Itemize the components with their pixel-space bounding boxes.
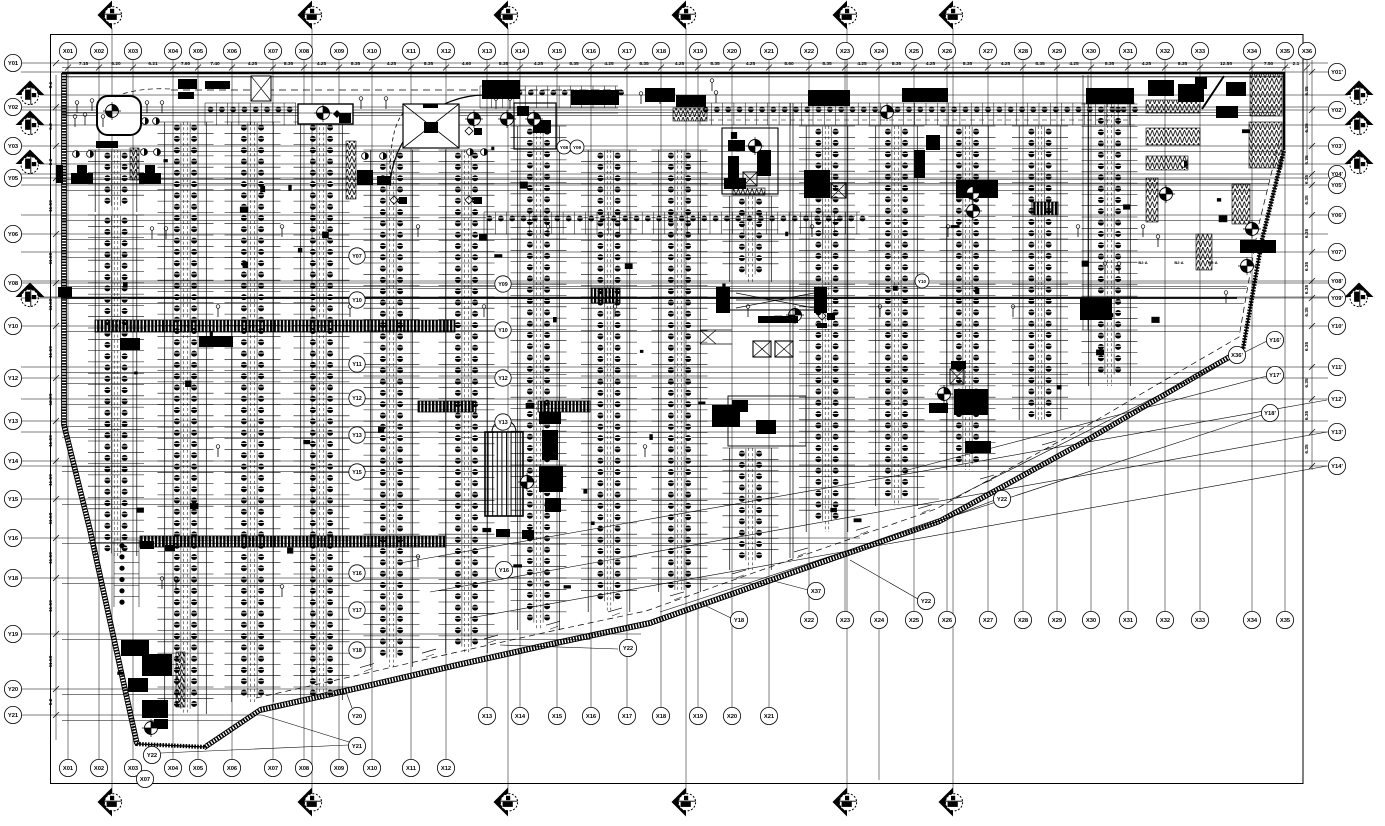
svg-text:4.25: 4.25 [1142, 61, 1152, 67]
svg-text:X12: X12 [441, 49, 451, 55]
svg-text:8.1: 8.1 [48, 81, 54, 88]
svg-text:4.25: 4.25 [857, 61, 867, 67]
svg-text:X10: X10 [367, 49, 377, 55]
svg-text:Y01: Y01 [8, 61, 19, 67]
svg-text:B2·A: B2·A [1138, 260, 1147, 265]
svg-text:X11: X11 [406, 766, 417, 772]
svg-text:Y22: Y22 [623, 646, 633, 652]
svg-text:Y13: Y13 [352, 433, 362, 439]
svg-text:X29: X29 [1052, 618, 1063, 624]
svg-text:11.50: 11.50 [48, 252, 54, 264]
svg-text:Y15: Y15 [8, 497, 19, 503]
svg-text:B2·A: B2·A [1174, 260, 1183, 265]
svg-text:8.35: 8.35 [499, 61, 509, 67]
svg-text:X15: X15 [552, 714, 563, 720]
svg-text:8.35: 8.35 [1035, 61, 1045, 67]
svg-text:Y22: Y22 [921, 599, 931, 605]
svg-text:Y16': Y16' [1269, 338, 1281, 344]
svg-text:Y16: Y16 [8, 536, 19, 542]
svg-text:X05: X05 [193, 49, 204, 55]
svg-text:X11: X11 [406, 49, 417, 55]
svg-text:X17: X17 [622, 49, 632, 55]
svg-text:Y18: Y18 [352, 648, 362, 654]
svg-text:X15: X15 [552, 49, 563, 55]
svg-text:X23: X23 [840, 618, 851, 624]
svg-text:X07: X07 [268, 49, 278, 55]
svg-text:X06: X06 [227, 49, 238, 55]
svg-text:X16: X16 [586, 714, 597, 720]
svg-text:Y20: Y20 [352, 714, 362, 720]
svg-text:X09: X09 [334, 766, 345, 772]
svg-text:6.35: 6.35 [1304, 262, 1310, 272]
svg-text:X22: X22 [804, 49, 814, 55]
svg-text:6.35: 6.35 [1304, 411, 1310, 421]
svg-text:X12: X12 [441, 766, 451, 772]
svg-text:Y17': Y17' [1269, 373, 1281, 379]
svg-text:X32: X32 [1160, 49, 1170, 55]
svg-text:X27: X27 [983, 49, 993, 55]
svg-text:6.2: 6.2 [48, 123, 54, 130]
svg-text:X31: X31 [1123, 49, 1134, 55]
svg-text:7.40: 7.40 [210, 61, 220, 67]
svg-text:Y18: Y18 [734, 618, 745, 624]
svg-text:6.35: 6.35 [1304, 229, 1310, 239]
svg-text:X04: X04 [168, 49, 179, 55]
svg-text:Y08: Y08 [8, 281, 19, 287]
svg-text:Y21: Y21 [352, 744, 363, 750]
svg-text:X01: X01 [63, 49, 74, 55]
svg-text:Y09: Y09 [573, 145, 582, 150]
svg-text:11.50: 11.50 [48, 512, 54, 524]
svg-text:8.35: 8.35 [1178, 61, 1188, 67]
svg-text:X03: X03 [128, 766, 139, 772]
svg-text:X16: X16 [586, 49, 597, 55]
svg-text:4.25: 4.25 [248, 61, 258, 67]
svg-text:11.50: 11.50 [48, 474, 54, 486]
svg-text:X09: X09 [334, 49, 345, 55]
svg-text:Y20: Y20 [8, 687, 18, 693]
svg-text:X19: X19 [693, 49, 704, 55]
svg-text:X35: X35 [1280, 49, 1291, 55]
svg-text:Y14: Y14 [8, 459, 19, 465]
svg-text:8.35: 8.35 [639, 61, 649, 67]
svg-text:8.60: 8.60 [784, 61, 794, 67]
svg-text:7.60: 7.60 [181, 61, 191, 67]
svg-text:X06: X06 [227, 766, 238, 772]
svg-text:8.35: 8.35 [1105, 61, 1115, 67]
svg-text:X19: X19 [693, 714, 704, 720]
svg-text:X26: X26 [942, 49, 953, 55]
svg-text:X29: X29 [1052, 49, 1063, 55]
svg-text:6.35: 6.35 [1304, 123, 1310, 133]
svg-text:6.35: 6.35 [1304, 175, 1310, 185]
svg-text:8.35: 8.35 [710, 61, 720, 67]
svg-text:X25: X25 [909, 618, 920, 624]
svg-text:X24: X24 [874, 618, 885, 624]
svg-text:2.1: 2.1 [1293, 61, 1300, 67]
svg-text:Y21: Y21 [8, 713, 19, 719]
svg-text:X20: X20 [727, 714, 737, 720]
svg-text:X21: X21 [764, 49, 775, 55]
svg-text:Y05': Y05' [1331, 183, 1343, 189]
svg-text:X21: X21 [764, 714, 775, 720]
svg-text:6.20: 6.20 [111, 61, 121, 67]
svg-text:X33: X33 [1195, 618, 1206, 624]
svg-text:Y17: Y17 [352, 608, 362, 614]
svg-text:X35: X35 [1280, 618, 1291, 624]
svg-text:Y10: Y10 [918, 279, 927, 284]
svg-text:X03: X03 [128, 49, 139, 55]
svg-text:Y10': Y10' [1331, 324, 1343, 330]
svg-text:6.35: 6.35 [1304, 155, 1310, 165]
svg-text:8.35: 8.35 [963, 61, 973, 67]
svg-text:X20: X20 [727, 49, 737, 55]
svg-text:Y22: Y22 [147, 753, 157, 759]
svg-text:Y08': Y08' [1331, 279, 1343, 285]
svg-text:4.25: 4.25 [604, 61, 614, 67]
svg-text:Y02': Y02' [1331, 108, 1343, 114]
svg-text:4.25: 4.25 [1069, 61, 1079, 67]
svg-text:11.50: 11.50 [48, 435, 54, 447]
svg-text:X14: X14 [515, 49, 526, 55]
svg-text:X08: X08 [299, 49, 310, 55]
svg-text:6.35: 6.35 [1304, 86, 1310, 96]
svg-text:X28: X28 [1018, 49, 1029, 55]
svg-text:11.50: 11.50 [48, 200, 54, 212]
svg-text:6.35: 6.35 [1304, 195, 1310, 205]
svg-text:4.25: 4.25 [317, 61, 327, 67]
svg-text:Y13: Y13 [498, 420, 508, 426]
svg-text:Y12': Y12' [1331, 397, 1343, 403]
svg-text:Y18: Y18 [8, 576, 19, 582]
svg-text:X23: X23 [840, 49, 851, 55]
svg-text:Y08: Y08 [560, 145, 569, 150]
svg-text:6.35: 6.35 [1304, 285, 1310, 295]
svg-text:6.35: 6.35 [1304, 378, 1310, 388]
svg-text:Y12: Y12 [498, 376, 508, 382]
svg-text:Y01': Y01' [1331, 70, 1343, 76]
svg-text:6.35: 6.35 [1304, 342, 1310, 352]
svg-text:X26: X26 [942, 618, 953, 624]
svg-text:Y11: Y11 [352, 362, 361, 368]
svg-text:6.35: 6.35 [1304, 444, 1310, 454]
svg-text:11.50: 11.50 [48, 552, 54, 564]
svg-text:Y14': Y14' [1331, 464, 1343, 470]
svg-text:X37: X37 [811, 589, 821, 595]
svg-text:X17: X17 [622, 714, 632, 720]
svg-text:X07: X07 [140, 777, 150, 783]
svg-text:8.35: 8.35 [284, 61, 294, 67]
svg-text:4.25: 4.25 [1001, 61, 1011, 67]
svg-text:X22: X22 [804, 618, 814, 624]
svg-text:8.35: 8.35 [569, 61, 579, 67]
svg-text:4.25: 4.25 [387, 61, 397, 67]
svg-text:6.2: 6.2 [48, 158, 54, 165]
svg-text:Y15: Y15 [352, 470, 362, 476]
svg-text:X33: X33 [1195, 49, 1206, 55]
svg-text:7.15: 7.15 [79, 61, 89, 67]
svg-text:X28: X28 [1018, 618, 1029, 624]
svg-text:Y05: Y05 [8, 176, 19, 182]
svg-text:X32: X32 [1160, 618, 1170, 624]
svg-text:X34: X34 [1247, 618, 1258, 624]
svg-text:4.60: 4.60 [462, 61, 472, 67]
svg-text:Y13': Y13' [1331, 430, 1343, 436]
svg-text:8.35: 8.35 [351, 61, 361, 67]
svg-text:Y10: Y10 [352, 298, 362, 304]
svg-text:11.50: 11.50 [48, 600, 54, 612]
svg-text:6.21: 6.21 [148, 61, 158, 67]
svg-text:X07: X07 [268, 766, 278, 772]
svg-text:Y11': Y11' [1331, 365, 1343, 371]
svg-text:X05: X05 [193, 766, 204, 772]
svg-text:X10: X10 [367, 766, 377, 772]
svg-text:Y03': Y03' [1331, 144, 1343, 150]
svg-text:X13: X13 [482, 714, 493, 720]
svg-text:X27: X27 [983, 618, 993, 624]
svg-text:4.25: 4.25 [675, 61, 685, 67]
svg-text:Y12: Y12 [352, 396, 362, 402]
svg-text:X18: X18 [656, 714, 667, 720]
svg-text:X30: X30 [1086, 49, 1096, 55]
svg-text:6.2: 6.2 [48, 698, 54, 705]
svg-text:Y18': Y18' [1264, 411, 1276, 417]
svg-text:Y03: Y03 [8, 144, 19, 150]
svg-text:8.35: 8.35 [822, 61, 832, 67]
svg-text:X13: X13 [482, 49, 493, 55]
svg-text:X30: X30 [1086, 618, 1096, 624]
svg-text:X08: X08 [299, 766, 310, 772]
svg-text:X36': X36' [1231, 353, 1243, 359]
svg-text:X04: X04 [168, 766, 179, 772]
svg-text:X18: X18 [656, 49, 667, 55]
svg-text:Y13: Y13 [8, 419, 19, 425]
svg-text:Y19: Y19 [8, 632, 19, 638]
svg-text:11.50: 11.50 [48, 298, 54, 310]
svg-text:Y10: Y10 [498, 328, 508, 334]
svg-text:Y07: Y07 [352, 254, 362, 260]
svg-text:X25: X25 [909, 49, 920, 55]
svg-text:Y06: Y06 [8, 232, 19, 238]
svg-text:X31: X31 [1123, 618, 1134, 624]
svg-text:8.35: 8.35 [892, 61, 902, 67]
svg-text:Y06': Y06' [1331, 213, 1343, 219]
svg-text:X02: X02 [94, 766, 104, 772]
svg-text:Y02: Y02 [8, 105, 18, 111]
svg-text:Y16: Y16 [352, 571, 362, 577]
svg-text:11.50: 11.50 [48, 655, 54, 667]
svg-text:4.25: 4.25 [534, 61, 544, 67]
svg-text:X34: X34 [1247, 49, 1258, 55]
svg-text:B2·A: B2·A [1208, 260, 1217, 265]
svg-text:Y09: Y09 [498, 282, 508, 288]
svg-text:Y12: Y12 [8, 376, 18, 382]
svg-text:4.25: 4.25 [926, 61, 936, 67]
svg-text:X24: X24 [874, 49, 885, 55]
svg-text:Y10: Y10 [8, 324, 18, 330]
svg-text:X36: X36 [1302, 49, 1313, 55]
svg-text:Y09': Y09' [1331, 296, 1343, 302]
svg-text:6.35: 6.35 [1304, 307, 1310, 317]
svg-text:Y16: Y16 [499, 568, 510, 574]
svg-text:X02: X02 [94, 49, 104, 55]
svg-text:12.00: 12.00 [48, 393, 54, 405]
svg-text:7.50: 7.50 [1264, 61, 1274, 67]
svg-text:11.50: 11.50 [48, 346, 54, 358]
svg-text:4.25: 4.25 [746, 61, 756, 67]
svg-text:Y22: Y22 [997, 497, 1007, 503]
svg-text:Y07': Y07' [1331, 250, 1343, 256]
svg-text:8.35: 8.35 [424, 61, 434, 67]
svg-text:12.55: 12.55 [1220, 61, 1232, 67]
svg-text:X14: X14 [515, 714, 526, 720]
svg-text:X01: X01 [63, 766, 74, 772]
